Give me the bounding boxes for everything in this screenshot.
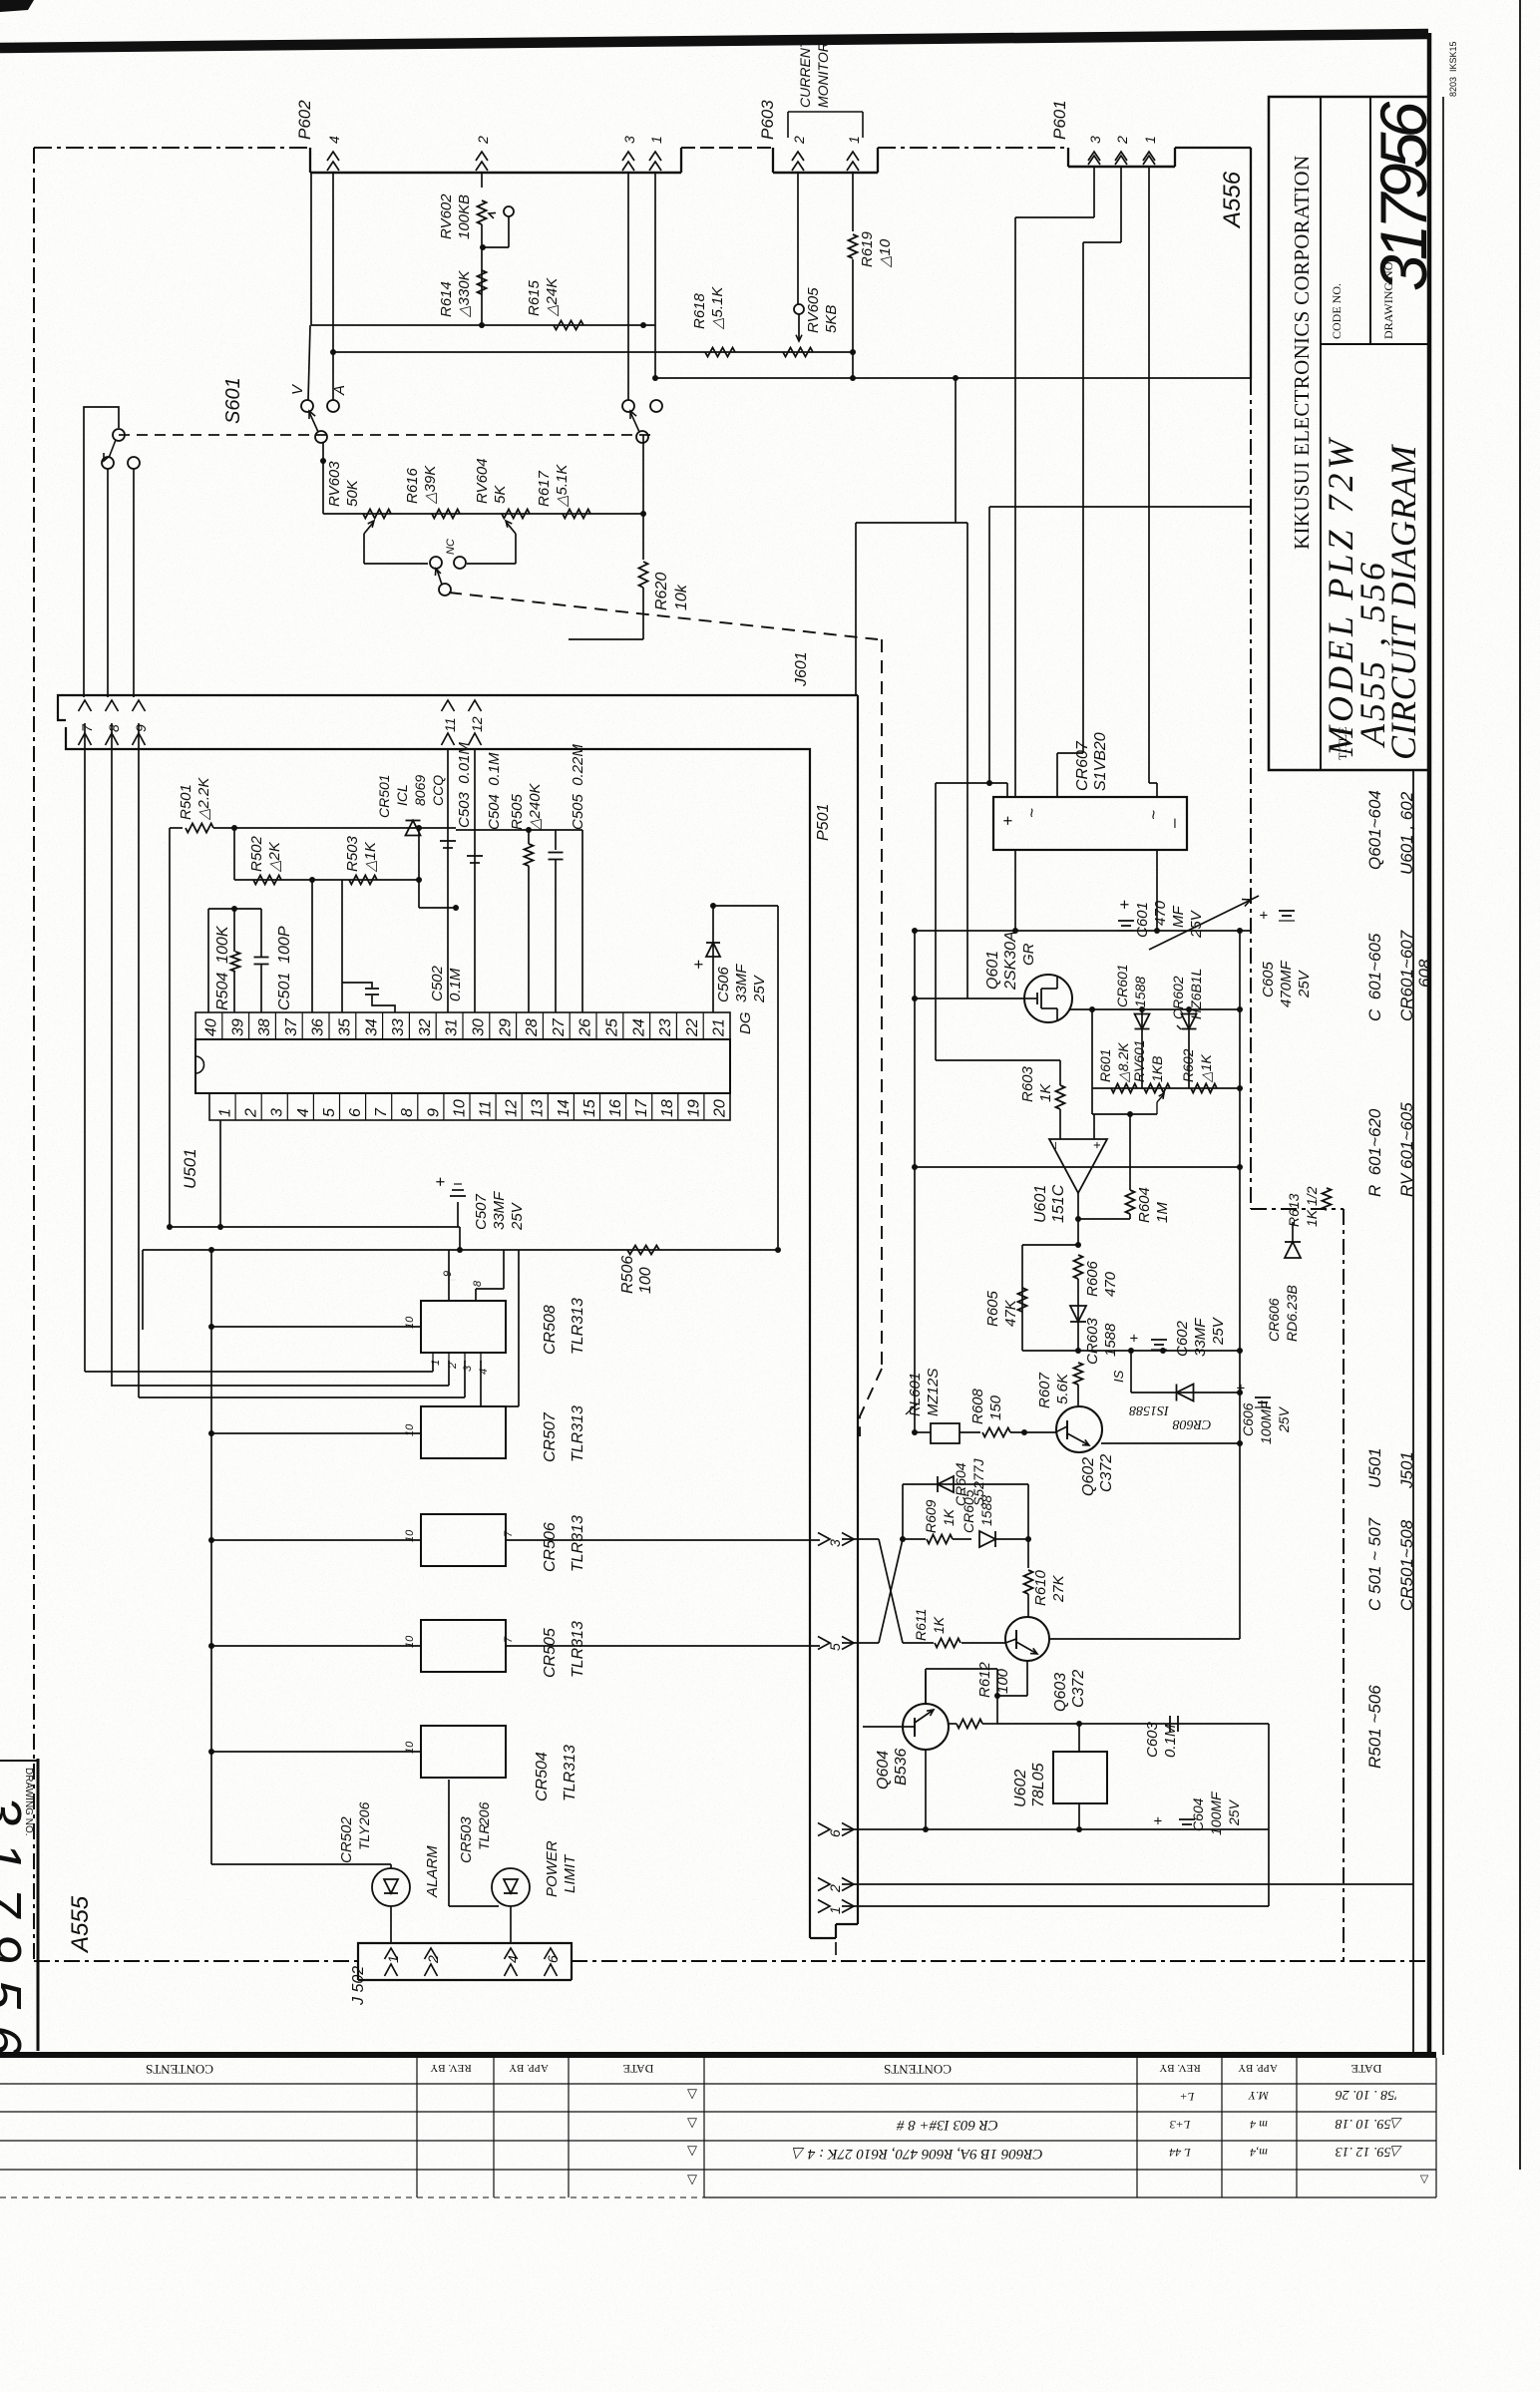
wire CR501 bottom rail to pin35 xyxy=(419,907,456,909)
resistor R614 330K xyxy=(478,270,487,294)
scan artifact: top-left corner mark xyxy=(0,0,34,12)
capacitor C602 33MF xyxy=(1151,1339,1167,1341)
transistor Q602 C372 xyxy=(1056,1406,1102,1452)
IC U501 top pin row (pins 40..21) xyxy=(195,1012,730,1039)
LED display CR507 TLR313 xyxy=(421,1406,506,1458)
current monitor bracket xyxy=(788,111,863,113)
capacitor C507 33MF 25V rail xyxy=(170,1226,460,1228)
resistor R606 470 xyxy=(1074,1255,1083,1279)
title block outer frame xyxy=(1269,97,1429,770)
connector J502 xyxy=(358,1943,572,1961)
regulator U602 78L05 xyxy=(1053,1752,1107,1803)
rail y1354 xyxy=(1022,1350,1240,1352)
connector P601 pin 2 xyxy=(1115,152,1127,161)
diode CR604 S5277J loop xyxy=(902,1484,904,1539)
connector J601 pin 8 xyxy=(106,700,119,711)
zener CR602 HZ6B1L xyxy=(1188,1009,1190,1088)
right bus x1243 xyxy=(1239,931,1241,1443)
resistor R610 27K xyxy=(1027,1539,1029,1568)
connector P601 pin 3 xyxy=(1088,152,1100,161)
FET Q601 2SK30A GR xyxy=(1024,975,1072,1022)
wire C506 rail xyxy=(713,905,778,907)
connector J601 pin 3 xyxy=(818,1533,830,1546)
resistor R609 1K xyxy=(903,1538,926,1540)
diode CR501 ICL8069 xyxy=(406,821,421,836)
resistor R503 1K xyxy=(349,876,377,885)
revision table: top heavy rule xyxy=(0,2052,1436,2058)
zener C506 33MF 25V xyxy=(712,906,714,1012)
resistor R504 100K xyxy=(207,909,209,1012)
A556 boundary right vertical xyxy=(1250,148,1252,379)
wire pin36 from R502/R503 rail xyxy=(311,880,313,1012)
capacitor C501 100P xyxy=(260,909,262,957)
connector P602 pin 2 xyxy=(476,152,488,161)
scan artifact: underlying sheet DRAWING NO box at left edge xyxy=(37,1759,40,2051)
RV604 wiper xyxy=(515,534,517,559)
wire V up to bus xyxy=(308,325,310,400)
wire bus y=326 xyxy=(310,173,312,325)
wire top rail x455-584 y832 xyxy=(456,829,582,831)
wire CR607 outputs down xyxy=(1014,850,1016,931)
diode CR608 IS1588 xyxy=(1130,1351,1132,1393)
switch S601 dash line xyxy=(119,434,656,436)
wire P602.3 down xyxy=(627,173,629,400)
connector J502 pin 1 xyxy=(385,1948,398,1959)
connector J502 pin 2 xyxy=(425,1948,438,1959)
A556 top boundary bus with connectors xyxy=(34,147,310,149)
connector J502 pin 4 xyxy=(505,1948,518,1959)
connector P603 pin 1 xyxy=(847,152,859,161)
RV601 wiper xyxy=(1156,1102,1158,1114)
Q602 emitter wire xyxy=(1101,1442,1240,1444)
CR506 pin7 wire xyxy=(506,1539,820,1541)
frame: outer right thin line xyxy=(1519,0,1521,2170)
frame: right page border (thick) xyxy=(1427,33,1432,2057)
wire R502 rail xyxy=(233,828,235,880)
vertical x917 xyxy=(914,931,916,1432)
connector P602 pin 1 xyxy=(649,152,661,161)
IC U501 body xyxy=(195,1039,730,1093)
left feed wire xyxy=(169,828,171,1227)
zener CR606 RD6.23B xyxy=(1292,1222,1294,1242)
wire bus y=379 xyxy=(653,377,1251,379)
Q603 collector to right bus xyxy=(1049,1638,1240,1640)
rail y1012 Q601 source to bus xyxy=(1070,1008,1240,1010)
connector J601 pin 7 xyxy=(79,700,92,711)
rail y1911 (pin1) xyxy=(842,1905,1269,1907)
LED display CR506 TLR313 xyxy=(421,1514,506,1566)
relay RL601 MZ12S xyxy=(931,1423,960,1443)
diagonal + arrow C605 xyxy=(1149,903,1245,950)
wire bus y=353 xyxy=(333,351,853,353)
rail y1889 (pin2) xyxy=(842,1883,1413,1885)
CR508 bottom pin wires xyxy=(84,723,86,1372)
op amp U601 151C xyxy=(1049,1139,1107,1193)
pot row RV603 R616 RV604 R617 xyxy=(322,443,324,514)
pot RV605 5KB xyxy=(783,348,813,357)
dashed route from NC xyxy=(449,593,878,639)
IC U501 bottom pin row (pins 1..20) xyxy=(209,1093,730,1120)
resistor R618 5.1K xyxy=(705,348,735,357)
pot RV602 100KB xyxy=(481,173,483,188)
A555 boundary dash-dot left vertical xyxy=(33,148,35,1961)
LED block feed wire xyxy=(210,1250,212,1864)
connector J601 pin 2 xyxy=(818,1878,830,1891)
connector P602 pin 3 xyxy=(622,152,634,161)
RV603 wiper xyxy=(363,534,365,559)
capacitor C604 100MF 25V xyxy=(1179,1818,1195,1820)
diode CR603 1588 xyxy=(1077,1279,1079,1351)
crossed wires pins 3/5 xyxy=(842,1538,879,1540)
wire x1272 right loop xyxy=(1268,1724,1270,1906)
wire +input up xyxy=(1093,1114,1095,1139)
resistor R505 240K xyxy=(525,844,534,866)
connector J601 pin 11 xyxy=(442,700,455,711)
LED CR503 TLR206 (POWER LIMIT) xyxy=(448,1780,450,1906)
connector J601 pin 6 xyxy=(818,1823,830,1836)
resistor R611 1K xyxy=(903,1642,934,1644)
wire y1170 long xyxy=(917,1166,1240,1168)
CR508 bottom pins 1,2,3,4 xyxy=(432,1353,434,1363)
wires P601 pins down to CR607 xyxy=(1093,167,1095,217)
wire P603.2 to RV605 wiper xyxy=(797,173,799,304)
revision table: grid xyxy=(0,2083,1436,2085)
connector P602 xyxy=(309,148,311,173)
connector P501 inner rail xyxy=(66,727,810,1938)
frame: inner right margin line xyxy=(1412,770,1414,2055)
connector P601 pin 1 xyxy=(1143,152,1155,161)
connector J601 pin 9 xyxy=(133,700,146,711)
connector J601 pin 12 xyxy=(469,700,482,711)
resistor R613 1K 1/2 xyxy=(1323,1188,1332,1210)
resistor R619 10 xyxy=(852,173,854,231)
LED CR502 TLY206 (ALARM) xyxy=(211,1863,391,1865)
diode CR601 1588 xyxy=(1141,1009,1143,1088)
switch NC xyxy=(364,563,428,565)
rail y933 with C601 xyxy=(915,930,1251,932)
resistor R607 5.6K xyxy=(1074,1363,1083,1385)
wire P602.4 to A xyxy=(332,173,334,400)
scan artifact: top black edge strip xyxy=(0,34,1428,48)
connector P602 pin 4 xyxy=(327,152,339,161)
resistor R605 47K xyxy=(1022,1244,1078,1246)
wire pin26 drop xyxy=(581,830,583,1012)
capacitor C502 0.1M xyxy=(341,880,343,1012)
wire C603 0.1M xyxy=(997,1723,1269,1725)
wire op amp out xyxy=(1077,1193,1079,1245)
LED display CR505 TLR313 xyxy=(421,1620,506,1672)
connector J502 pin 6 xyxy=(545,1948,558,1959)
rail y1834 (pin6) xyxy=(842,1828,1269,1830)
A555 boundary dash-dot bottom xyxy=(34,1960,358,1962)
transistor Q603 C372 xyxy=(1005,1617,1049,1661)
resistor R615 24K xyxy=(554,321,583,330)
wire CR607 + to left bus xyxy=(936,782,1007,784)
resistor R604 1M xyxy=(1126,1190,1135,1214)
switch S601 V/A section xyxy=(301,400,313,412)
rail y1001 Q601 gate xyxy=(915,997,1026,999)
connector J601 pin 5 xyxy=(818,1637,830,1650)
wire pins 8,9 to switch xyxy=(107,469,109,697)
capacitor C505 0.22M xyxy=(555,830,557,850)
wire y508 and y524 feeders xyxy=(989,506,1251,508)
connector J601 top rail xyxy=(58,695,858,720)
wire Q604 collector up xyxy=(925,1669,927,1704)
resistor R506 100 xyxy=(627,1246,659,1255)
CR508 top pins 9,8 xyxy=(448,1280,450,1301)
connector P601 xyxy=(1067,148,1069,167)
transistor Q604 B536 xyxy=(903,1704,949,1750)
resistor R608 150 xyxy=(982,1428,1010,1437)
switch S601 right section xyxy=(622,400,634,412)
resistor R502 2K xyxy=(253,876,281,885)
title block divider code/title rows xyxy=(1321,343,1429,345)
capacitor C504 0.1M xyxy=(474,749,476,1012)
connector P603 xyxy=(772,148,774,173)
resistor row R601 RV601 R602 xyxy=(1092,1087,1240,1089)
R504/C501 top rail xyxy=(208,908,261,910)
LED display CR508 TLR313 xyxy=(421,1301,506,1353)
wire P602.1 down xyxy=(654,173,656,378)
wire rail y1253 xyxy=(143,1249,778,1251)
resistor R603 1K xyxy=(936,1059,1060,1061)
resistor R612 100 xyxy=(957,1720,982,1729)
resistor R501 2.2K xyxy=(170,827,183,829)
connector J601 pin 1 xyxy=(818,1900,830,1913)
LED display CR504 TLR313 xyxy=(421,1726,506,1778)
connector P603 pin 2 xyxy=(792,152,804,161)
S601 left wafer xyxy=(84,407,119,697)
resistor R620 10k xyxy=(642,435,644,443)
diode CR605 1588 xyxy=(953,1538,971,1540)
bridge rectifier CR607 S1VB20 xyxy=(993,797,1187,850)
title block divider company/title xyxy=(1320,97,1322,770)
capacitor C503 0.01M xyxy=(447,749,449,1012)
